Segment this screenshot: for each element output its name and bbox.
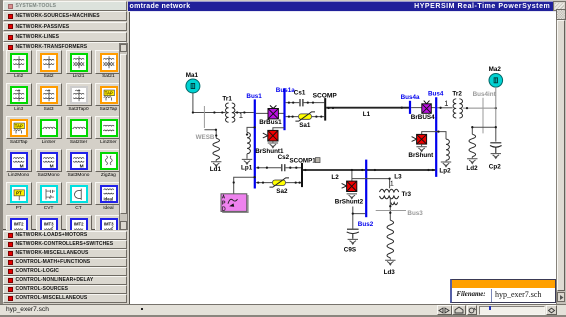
svg-text:Lp1: Lp1 [241, 164, 253, 171]
svg-text:IMT3: IMT3 [104, 221, 114, 226]
svg-text:M: M [80, 163, 84, 168]
svg-text:IMT2: IMT2 [74, 221, 84, 226]
wire Tr1 to Bus1 [235, 111, 254, 113]
wire to Tr3 [352, 177, 391, 188]
svg-text:PT: PT [16, 190, 22, 195]
wire Bus2 to C9S [352, 206, 366, 228]
window title bar [128, 1, 557, 12]
wire Bus4 to Tr2 [437, 106, 452, 108]
svg-text:WESB: WESB [196, 134, 215, 141]
capacitor Cs2 [256, 154, 301, 172]
svg-text:Bus4a: Bus4a [401, 94, 420, 101]
svg-text:L3: L3 [394, 173, 402, 180]
ground Lp2 [441, 162, 451, 167]
inductor Ld2 [469, 134, 476, 158]
svg-text:IMT2: IMT2 [14, 221, 24, 226]
control block (fault logic) [221, 194, 249, 213]
wire Tr3 to Ld3 [389, 197, 391, 220]
wire control block to Bus1 [233, 176, 256, 194]
label SCOMP [313, 92, 338, 99]
bus Bus4a [401, 94, 420, 114]
svg-text:BrBus1: BrBus1 [259, 119, 282, 126]
inductor Lp2 [446, 139, 449, 161]
ground C9S [348, 239, 358, 244]
wire Ma2 drop [495, 87, 497, 127]
svg-text:Bus3: Bus3 [407, 210, 423, 217]
label Ld2 [466, 165, 478, 172]
svg-text:C9S: C9S [344, 246, 356, 253]
panel scrollbar [119, 43, 128, 230]
svg-text:Ma2: Ma2 [489, 66, 502, 73]
svg-text:Lp2: Lp2 [439, 167, 451, 174]
svg-text:TAP: TAP [105, 90, 113, 95]
label BrShunt [408, 152, 434, 159]
machine Ma1 [186, 72, 200, 93]
ground BrShunt [416, 144, 426, 152]
svg-text:L2: L2 [331, 174, 339, 181]
filename box [450, 279, 556, 303]
svg-text:Ideal: Ideal [103, 196, 113, 201]
bus bar SCOMP1 [301, 163, 303, 187]
wire Ma1 to main [192, 93, 226, 114]
pin 1 of Tr3 [390, 181, 393, 185]
left panel background [0, 0, 130, 317]
svg-text:BrShunt2: BrShunt2 [335, 198, 364, 205]
svg-text:L1: L1 [363, 111, 371, 118]
label Cp2 [489, 163, 501, 170]
label Lp2 [439, 167, 451, 174]
svg-text:Cs1: Cs1 [294, 89, 306, 96]
inductor Ld3 [387, 220, 394, 259]
node Bus3 [376, 210, 424, 217]
breaker BrBUS4 [411, 100, 435, 121]
transformer Tr1 [222, 95, 235, 122]
wire BrShunt/Lp2 jog [422, 130, 446, 139]
bus Bus1a [276, 87, 295, 130]
capacitor C9S [347, 229, 359, 239]
bus Bus2 [358, 159, 374, 227]
surge arrester Sa1 [286, 112, 325, 129]
wire rail to Ld2/Cp2 [471, 126, 497, 142]
capacitor Cp2 [490, 143, 502, 153]
breaker BrShunt1 [263, 130, 278, 141]
svg-text:BrBUS4: BrBUS4 [411, 114, 435, 121]
ground Ld3 [385, 260, 395, 265]
machine Ma2 [489, 66, 503, 87]
wire to Ld1 [204, 128, 217, 138]
right scrollbar [556, 9, 566, 304]
svg-text:Tr3: Tr3 [402, 191, 412, 198]
breaker BrBus1 [256, 105, 284, 125]
breaker BrShunt [412, 134, 427, 144]
ground Ld2 [467, 159, 477, 164]
svg-text:Ld2: Ld2 [466, 165, 478, 172]
ground Cp2 [491, 153, 501, 158]
label BrShunt1 [255, 148, 284, 155]
svg-text:Cp2: Cp2 [489, 163, 501, 170]
schematic canvas [129, 12, 556, 305]
surge arrester Sa2 [256, 178, 301, 195]
ground Lp1 [242, 159, 252, 164]
line L2/L3 [303, 169, 435, 181]
ground Ld1 [211, 162, 221, 167]
svg-text:IMT3: IMT3 [44, 221, 54, 226]
node Bus4int [473, 91, 497, 133]
svg-text:M: M [20, 163, 24, 168]
wire Bus1a to BrShunt1 [273, 128, 285, 131]
label SCOMP1 [290, 157, 321, 164]
svg-text:Ma1: Ma1 [186, 72, 199, 79]
bus Bus4 [428, 90, 444, 176]
breaker BrShunt2 [342, 171, 357, 192]
svg-text:BrShunt1: BrShunt1 [255, 148, 284, 155]
label Ld1 [210, 166, 222, 173]
bus bar SCOMP [324, 98, 326, 121]
svg-text:Tr2: Tr2 [452, 90, 462, 97]
bus Bus1 [246, 93, 262, 189]
pin 1 of Tr2 [445, 101, 448, 106]
inductor Ld1 [213, 138, 220, 161]
svg-text:M: M [50, 163, 54, 168]
svg-text:Tr1: Tr1 [222, 95, 232, 102]
line L1 [326, 106, 409, 118]
wire Tr2 to Ma2 (node Bus4int) [463, 107, 497, 109]
svg-text:Bus4: Bus4 [428, 90, 444, 97]
svg-text:Sa2: Sa2 [276, 188, 288, 195]
svg-text:Bus4int: Bus4int [473, 91, 497, 98]
svg-text:Ld1: Ld1 [210, 166, 222, 173]
pin 1 of Tr1 [239, 113, 242, 118]
svg-text:Ld3: Ld3 [384, 269, 396, 276]
svg-text:Bus2: Bus2 [358, 221, 374, 228]
label BrShunt2 [335, 198, 364, 205]
bottom status bar [0, 304, 566, 315]
ground BrShunt1 [268, 141, 278, 148]
svg-text:Bus1a: Bus1a [276, 87, 295, 94]
label Ld3 [384, 269, 396, 276]
capacitor Cs1 [286, 89, 325, 106]
node WESB [196, 106, 215, 141]
ground BrShunt2 [347, 194, 357, 199]
svg-text:TAP: TAP [15, 123, 23, 128]
label Lp1 [241, 164, 253, 171]
svg-text:Bus1: Bus1 [246, 93, 262, 100]
transformer Tr3 [380, 189, 412, 205]
label C9S [344, 246, 356, 253]
wire Bus1 to Lp1 [246, 126, 256, 135]
svg-text:Sa1: Sa1 [299, 122, 311, 129]
transformer Tr2 [452, 90, 462, 117]
inductor Lp1 [247, 132, 250, 158]
svg-text:BrShunt: BrShunt [408, 152, 434, 159]
